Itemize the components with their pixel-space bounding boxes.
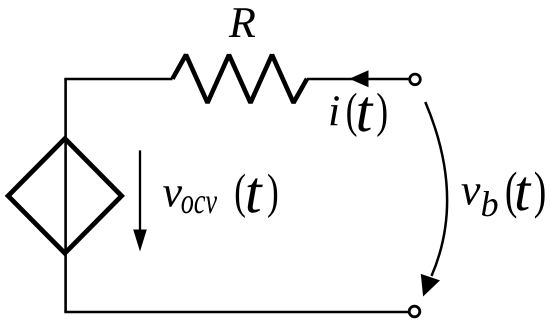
v_ocv arrow line — [139, 150, 141, 231]
current arrowhead i(t) pointing left — [349, 70, 368, 87]
label v_b(t) — [462, 172, 545, 219]
terminal node bottom right — [409, 306, 420, 317]
resistor R — [173, 55, 308, 103]
v_b curved arrowhead — [421, 274, 440, 297]
label R — [229, 8, 255, 37]
v_ocv arrowhead — [133, 230, 147, 252]
wire top rail left segment — [64, 78, 172, 81]
wire top rail right segment — [307, 78, 409, 81]
wire left vertical — [64, 79, 67, 312]
dependent source diamond — [8, 139, 122, 254]
label v_ocv(t) — [163, 174, 277, 218]
wire bottom rail — [64, 311, 408, 314]
label i(t) — [330, 93, 386, 137]
v_b curved arrow arc — [425, 102, 447, 276]
terminal node top right — [410, 74, 421, 85]
